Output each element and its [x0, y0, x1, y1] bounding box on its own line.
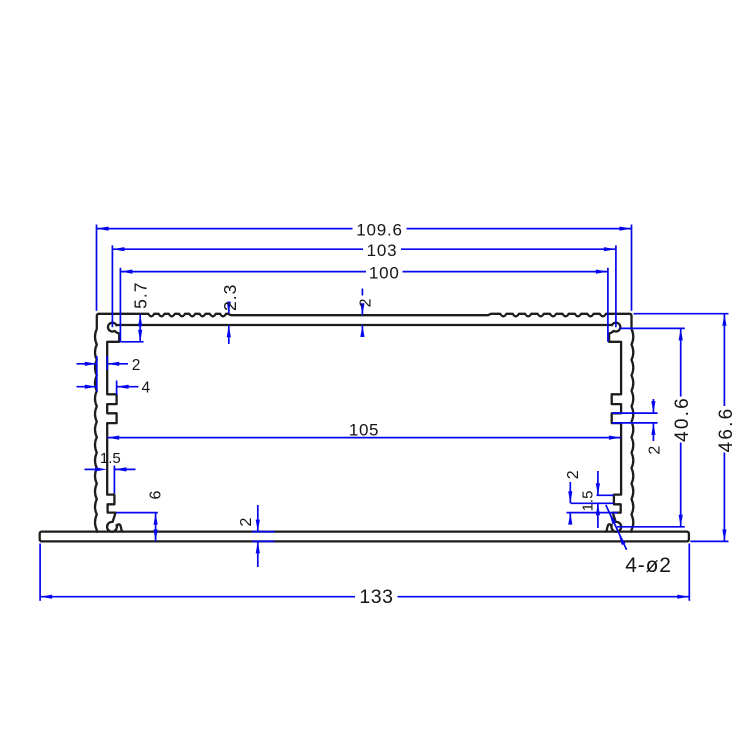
svg-text:4-ø2: 4-ø2 — [625, 554, 671, 577]
svg-text:5.7: 5.7 — [130, 282, 150, 309]
svg-text:2: 2 — [565, 470, 582, 479]
svg-text:105: 105 — [349, 421, 379, 440]
svg-text:103: 103 — [367, 241, 398, 260]
svg-text:2: 2 — [238, 517, 255, 526]
svg-text:1.5: 1.5 — [579, 491, 596, 512]
svg-text:109.6: 109.6 — [356, 221, 403, 240]
svg-text:40.6: 40.6 — [672, 396, 693, 442]
svg-text:46.6: 46.6 — [716, 407, 737, 453]
svg-text:2: 2 — [357, 298, 374, 307]
svg-text:1.5: 1.5 — [100, 450, 121, 467]
svg-text:2: 2 — [132, 357, 141, 374]
svg-text:2: 2 — [646, 446, 663, 455]
svg-text:2.3: 2.3 — [220, 284, 240, 311]
svg-text:6: 6 — [148, 490, 165, 499]
svg-text:133: 133 — [359, 586, 393, 608]
svg-text:4: 4 — [141, 380, 150, 397]
svg-text:100: 100 — [369, 264, 400, 283]
